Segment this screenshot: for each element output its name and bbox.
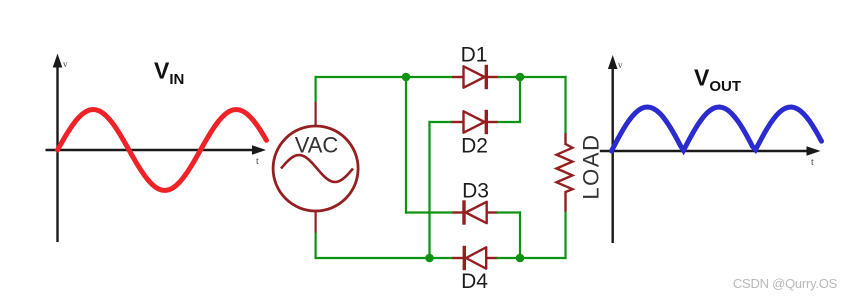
Vin horizontal axis (t) bbox=[46, 145, 267, 167]
Vout vertical axis (v) bbox=[608, 55, 623, 243]
wire LOAD bottom to - node bbox=[564, 211, 566, 260]
Vout horizontal axis (t) bbox=[600, 146, 821, 168]
junction AC2 bbox=[425, 254, 434, 263]
resistor LOAD bbox=[557, 133, 573, 212]
svg-text:t: t bbox=[811, 157, 814, 168]
diode D2 bbox=[451, 110, 498, 134]
svg-text:t: t bbox=[256, 156, 259, 167]
diode D4 bbox=[452, 246, 497, 270]
wire AC1 left bus down bbox=[405, 77, 407, 214]
Vin sine waveform bbox=[58, 110, 267, 191]
wire AC1 to D3 cathode bbox=[405, 211, 453, 213]
wire bottom AC2 horizontal bbox=[315, 257, 453, 259]
AC source VAC bbox=[273, 126, 358, 211]
wire D2 anode to AC2 bus bbox=[428, 121, 430, 258]
Vin vertical axis (v) bbox=[53, 54, 68, 243]
svg-text:LOAD: LOAD bbox=[579, 133, 604, 199]
diode D3 bbox=[453, 200, 498, 224]
svg-text:VAC: VAC bbox=[295, 133, 339, 158]
wire top AC1 horizontal bbox=[315, 76, 453, 78]
wire + node to LOAD top bbox=[564, 76, 566, 134]
svg-text:D4: D4 bbox=[461, 270, 488, 293]
svg-text:v: v bbox=[63, 59, 68, 69]
diode D1 bbox=[452, 65, 499, 89]
junction - node bbox=[516, 254, 525, 263]
VAC top lead bbox=[315, 101, 317, 126]
svg-text:D1: D1 bbox=[461, 44, 488, 67]
svg-text:CSDN @Qurry.OS: CSDN @Qurry.OS bbox=[733, 276, 838, 291]
wire VAC bottom to node AC2 bbox=[315, 233, 317, 260]
wire + node down to D2 cathode bbox=[519, 77, 521, 123]
wire VAC top to node AC1 bbox=[315, 76, 317, 102]
wire D1 cathode to + node bbox=[498, 76, 567, 78]
Vout rectified waveform bbox=[612, 107, 822, 151]
junction AC1 bbox=[402, 73, 411, 82]
svg-text:D3: D3 bbox=[462, 180, 489, 203]
wire D3 anode to - node bbox=[497, 211, 522, 213]
junction + node bbox=[516, 73, 525, 82]
VAC bottom lead bbox=[315, 211, 317, 234]
svg-text:D2: D2 bbox=[461, 135, 488, 158]
svg-text:v: v bbox=[618, 60, 623, 70]
wire D4 anode to - node and LOAD bottom bbox=[497, 257, 567, 259]
